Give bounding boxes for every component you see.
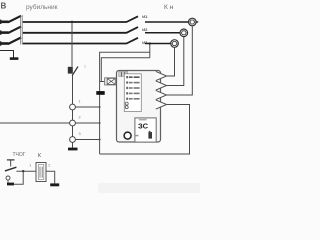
scan artifact band bbox=[98, 183, 200, 193]
wire X3 to meter terminal I1 bbox=[167, 47, 175, 76]
wire X2 to meter terminal I2 bbox=[167, 37, 184, 86]
ground bar right of relay bbox=[50, 183, 59, 186]
junction on phase C tap bbox=[149, 42, 151, 44]
svg-text:В: В bbox=[1, 2, 7, 11]
polarity bar on bus bbox=[96, 91, 104, 95]
phase A edge mark bbox=[0, 20, 1, 24]
wire phase A to terminal bbox=[145, 21, 189, 23]
svg-text:И1: И1 bbox=[142, 14, 148, 19]
switch QS2 blade B bbox=[127, 27, 139, 33]
meter left terminal assembly bbox=[105, 78, 119, 85]
wire phase B to terminal bbox=[145, 32, 180, 34]
meter right terminal arrow 2 bbox=[156, 81, 167, 90]
wire terminal 3 to bus bbox=[75, 139, 99, 141]
svg-text:1: 1 bbox=[79, 100, 81, 104]
terminal X3 (phase C) bbox=[171, 40, 179, 48]
wire junction down-left to bar bbox=[14, 171, 24, 184]
vertical bus wire left of meter bbox=[99, 82, 101, 155]
voltage tap from phase C bbox=[149, 44, 151, 58]
meter right terminal arrow 3 bbox=[156, 90, 167, 99]
junction bus / terminal3 wire bbox=[99, 139, 101, 141]
switch SA1 contact block bbox=[68, 67, 73, 74]
push button SB lower contact circle bbox=[6, 176, 10, 180]
meter right terminal arrow 1 bbox=[156, 71, 167, 80]
terminal X2 (phase B) bbox=[180, 29, 188, 37]
wire meter terminal I4 to bottom loop bbox=[100, 105, 190, 155]
terminal circle 2 bbox=[70, 120, 76, 126]
phase C incoming stub bbox=[1, 42, 9, 45]
junction bus / terminal2 wire bbox=[99, 122, 101, 124]
svg-text:рубильник: рубильник bbox=[26, 3, 58, 11]
wire between terminals 1-2 bbox=[72, 110, 74, 120]
knife switch QS1 blade C bbox=[8, 38, 21, 45]
wire terminal 1 to bus bbox=[75, 106, 99, 108]
wire between terminals 2-3 bbox=[72, 126, 74, 137]
knife switch QS1 blade A bbox=[8, 16, 21, 22]
meter top-left vent mark bbox=[119, 71, 128, 76]
wire button to relay box bbox=[16, 170, 36, 172]
meter display window bbox=[135, 118, 156, 142]
wire phase C to terminal bbox=[145, 43, 171, 45]
meter (electric energy meter) body bbox=[117, 71, 161, 143]
neutral terminator bar bbox=[10, 57, 19, 60]
phase C edge mark bbox=[0, 41, 1, 45]
terminal circle 3 bbox=[70, 137, 76, 143]
phase A stub after terminal bbox=[196, 21, 198, 23]
knife switch QS1 blade B bbox=[8, 27, 21, 33]
push button SB blade bbox=[5, 167, 17, 171]
switch QS2 blade A bbox=[127, 16, 139, 22]
ground bar below button bbox=[7, 183, 14, 186]
wire bus to meter left terminal bbox=[100, 81, 106, 83]
svg-text:ЗС: ЗС bbox=[138, 121, 149, 130]
svg-text:К н: К н bbox=[164, 4, 174, 11]
switch SA1 blade bbox=[72, 67, 78, 76]
svg-text:К: К bbox=[38, 153, 41, 159]
ground bar under terminal 3 bbox=[68, 148, 78, 151]
svg-text:И2: И2 bbox=[142, 27, 148, 32]
svg-text:1: 1 bbox=[29, 163, 31, 167]
relay K box bbox=[36, 163, 46, 182]
bus wire phase A bbox=[23, 21, 127, 23]
svg-text:2: 2 bbox=[48, 163, 50, 167]
phase A incoming stub bbox=[1, 20, 9, 23]
phase B edge mark bbox=[0, 30, 1, 34]
wire switch to terminal row bbox=[72, 76, 74, 105]
phase B incoming stub bbox=[1, 31, 9, 34]
svg-text:3: 3 bbox=[79, 132, 81, 136]
wire tap from phase A down bbox=[71, 22, 73, 67]
switch QS2 blade C bbox=[127, 38, 139, 44]
meter terminal list panel bbox=[124, 74, 141, 112]
junction on phase A at tap bbox=[71, 21, 73, 23]
svg-text:ТЧОГ: ТЧОГ bbox=[13, 152, 26, 158]
voltage wire to bus bbox=[100, 52, 150, 81]
meter LED circle bbox=[124, 132, 131, 139]
junction dot on button wire bbox=[22, 170, 24, 172]
svg-text:1: 1 bbox=[84, 65, 86, 69]
wire terminal 3 to ground bbox=[72, 142, 74, 147]
bus wire phase B bbox=[23, 32, 127, 34]
wire X1 to meter terminal I3 bbox=[167, 26, 193, 95]
wire relay to ground bbox=[46, 171, 55, 183]
junction bus / terminal1 wire bbox=[99, 106, 101, 108]
push button SB actuator bbox=[7, 159, 15, 161]
terminal X1 (phase A) bbox=[189, 18, 197, 26]
neutral incoming wire bbox=[0, 51, 14, 58]
svg-text:2: 2 bbox=[79, 116, 81, 120]
bus wire phase C bbox=[23, 43, 127, 45]
voltage wire to meter terminal bbox=[101, 58, 150, 82]
meter right terminal arrow 4 bbox=[156, 100, 167, 109]
terminal circle 1 bbox=[70, 104, 76, 110]
wire contact to ground bbox=[7, 180, 9, 183]
knife switch QS1 linkage bar bbox=[20, 15, 22, 45]
wire terminal 2 to bus bbox=[75, 122, 99, 124]
wire to left edge from terminal 2 bbox=[0, 122, 70, 124]
